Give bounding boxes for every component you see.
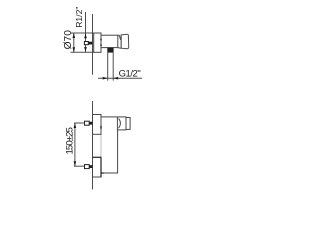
upper inlet fitting (front view) <box>85 121 90 125</box>
escutcheon column (front view) <box>93 115 102 178</box>
svg-text:G1/2": G1/2" <box>119 69 141 80</box>
flange edge view (Ø70) <box>94 33 101 52</box>
150±25 ext line bottom <box>74 165 85 167</box>
dark divider (front) <box>93 156 102 158</box>
dimension ext line top (Ø70) <box>71 32 94 34</box>
column divider upper <box>93 133 102 135</box>
svg-text:Ø70: Ø70 <box>63 30 74 50</box>
column divider lower <box>93 156 102 158</box>
mixer body (top view) <box>101 35 118 47</box>
handle end cap (front view) <box>126 118 130 130</box>
faint column middle right edge (front) <box>100 135 102 157</box>
handle hub arc <box>119 118 121 128</box>
outlet connector dark square (top view) <box>107 48 113 53</box>
Ø70 dimension line with arrows <box>73 33 75 52</box>
outlet pipe lines <box>107 53 109 81</box>
handle grip (top view) <box>121 34 129 49</box>
G1/2 dimension line <box>98 77 142 79</box>
dark tick flange right edge upper <box>100 39 102 41</box>
dark corner body bottom (front) <box>101 172 104 174</box>
mixer body (front view) <box>101 117 118 173</box>
lower inlet fitting (front view) <box>85 165 90 169</box>
150±25 ext line top <box>74 122 85 124</box>
R1/2 dimension line with arrows <box>85 12 87 52</box>
wall line (top view) <box>92 14 94 75</box>
dimension ext line bottom (Ø70) <box>71 51 94 53</box>
dark tick flange right edge lower <box>100 44 102 46</box>
svg-text:150±25: 150±25 <box>64 127 75 154</box>
dark segment column lower right edge (front) <box>100 157 102 177</box>
handle hub (front view) <box>117 117 126 130</box>
svg-text:R1/2": R1/2" <box>74 7 84 28</box>
dark tick column right edge (front) <box>100 126 102 129</box>
150±25 dimension line with arrows <box>74 123 76 166</box>
wall line (front view) <box>92 101 94 190</box>
handle neck (top view) <box>118 35 121 40</box>
wall fitting R1/2 (top view) <box>84 42 88 45</box>
